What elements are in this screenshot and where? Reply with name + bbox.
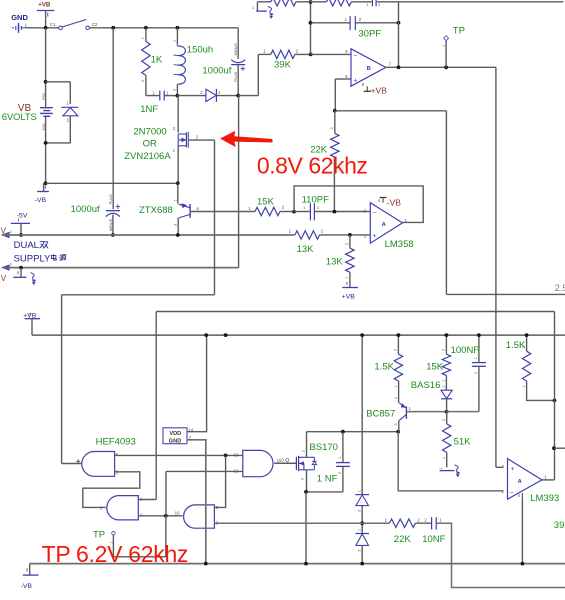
diode D4 clamp lower: [355, 529, 369, 552]
wire to -VB flag: [43, 183, 45, 191]
wire cap node down to rail2: [238, 96, 240, 268]
svg-text:1: 1: [338, 457, 342, 459]
wire clamp column mid: [361, 506, 363, 534]
wire comparator output: [542, 479, 555, 481]
svg-text:LM393: LM393: [530, 493, 559, 504]
svg-text:2: 2: [394, 397, 398, 399]
wire pin12 riser: [166, 471, 243, 515]
label DUAL SUPPLY: [14, 240, 67, 264]
node pin14 rail junction: [204, 333, 208, 337]
wire comparator output column: [496, 67, 503, 467]
node drain net junctions: [341, 430, 400, 434]
svg-text:2: 2: [141, 80, 145, 82]
wire top edge net: [257, 1, 563, 3]
wire gate3 pin9: [214, 455, 225, 507]
wire gnd to switch: [25, 27, 58, 29]
node source junction low: [304, 490, 308, 494]
annotation red arrow: [221, 131, 273, 146]
rail +VB lower: [32, 334, 565, 336]
svg-text:2: 2: [474, 372, 478, 374]
test point TP lower: [93, 516, 166, 557]
svg-text:1: 1: [474, 357, 478, 359]
svg-text:12: 12: [234, 469, 239, 474]
diode D3 clamp upper: [355, 490, 369, 512]
svg-text:C2: C2: [92, 22, 98, 27]
vdd gnd power box: [163, 427, 194, 444]
resistor R 13K horizontal: [289, 228, 371, 254]
svg-text:DUAL: DUAL: [14, 240, 39, 251]
node base net junction: [445, 410, 449, 414]
svg-text:1: 1: [442, 457, 446, 459]
node clamp rail junction: [360, 333, 364, 337]
svg-text:1000uf: 1000uf: [71, 204, 100, 215]
resistor R 51K: [442, 412, 471, 468]
node -VB junction: [44, 181, 48, 185]
svg-text:+: +: [511, 466, 515, 473]
svg-text:P02: P02: [42, 93, 46, 100]
wire top feedback column: [398, 2, 400, 68]
wire mosfet gate drive net: [62, 140, 215, 463]
svg-text:2: 2: [442, 419, 446, 421]
label HEF4093: [96, 436, 136, 447]
svg-text:HEF4093: HEF4093: [96, 436, 136, 447]
battery VB 6VOLTS: [2, 93, 53, 130]
svg-text:1: 1: [173, 40, 177, 42]
wire source column: [305, 492, 307, 564]
wire tank to diode: [177, 95, 206, 97]
node gate2 pin2 junction: [164, 514, 168, 518]
svg-text:1NF: 1NF: [140, 104, 158, 115]
terminal arrow left rail2: [1, 262, 13, 283]
power flag +VB under 13K: [342, 282, 358, 301]
svg-text:TP: TP: [453, 25, 465, 36]
svg-text:51K: 51K: [454, 437, 472, 448]
svg-text:OR: OR: [143, 139, 157, 150]
node diode-cap junction: [236, 94, 240, 98]
transistor Q1 2N7000: [124, 96, 199, 184]
nand gate U2:D HEF4093: [234, 450, 273, 476]
transistor Q4 BC857: [366, 381, 411, 432]
node output junctions: [397, 65, 448, 69]
terminal arrow left rail1: [1, 227, 13, 238]
svg-text:C1: C1: [50, 22, 56, 27]
node 13K junction: [348, 233, 352, 237]
wire opamp A feedback box: [294, 186, 423, 223]
svg-text:BAS16: BAS16: [411, 380, 441, 391]
op-amp U1:B LM358: [345, 49, 391, 86]
svg-text:2.5: 2.5: [555, 283, 565, 294]
svg-text:GND: GND: [169, 439, 181, 445]
svg-text:LM358: LM358: [385, 239, 414, 250]
svg-text:1.5K: 1.5K: [506, 340, 526, 351]
power pin +VB opamp B: [362, 82, 387, 96]
svg-text:13: 13: [234, 452, 239, 457]
svg-text:150uh: 150uh: [187, 45, 213, 56]
node top wire junctions: [44, 26, 180, 30]
node -5V rail junction: [19, 233, 23, 237]
svg-text:3: 3: [358, 550, 362, 552]
wire bs170 source: [306, 470, 343, 492]
wire bc857 base net: [406, 411, 446, 413]
node 100NF rail junction: [477, 333, 481, 337]
wire switch-right column: [112, 28, 114, 210]
resistor R 1.5K right: [506, 335, 555, 400]
node battery-diode top junction: [44, 80, 48, 84]
svg-text:1.5K: 1.5K: [374, 361, 394, 372]
svg-text:1: 1: [358, 529, 362, 531]
svg-text:−: −: [510, 490, 514, 497]
svg-text:−: −: [372, 209, 376, 216]
svg-text:PLUS: PLUS: [109, 194, 113, 204]
svg-text:SUPPLY: SUPPLY: [14, 254, 51, 265]
resistor top partial 2: [327, 0, 352, 6]
node clamp mid junction: [360, 521, 364, 525]
wire drain to comparator minus: [398, 432, 503, 491]
svg-text:100NF: 100NF: [451, 345, 480, 356]
wire clamp column upper: [361, 335, 363, 494]
label 2.5 partial: [555, 283, 565, 294]
capacitor top partial: [366, 0, 381, 7]
wire node to transistor column: [46, 182, 178, 184]
resistor top partial 1: [271, 0, 296, 6]
svg-text:PLUS: PLUS: [234, 71, 238, 81]
node 1.5K right junctions: [525, 333, 557, 402]
svg-text:110PF: 110PF: [302, 194, 329, 205]
svg-text:1K: 1K: [151, 55, 163, 66]
svg-text:10NF: 10NF: [422, 534, 445, 545]
test point TP top: [442, 25, 465, 67]
resistor R 1.5K left: [374, 335, 402, 387]
wire ztx base: [190, 211, 251, 213]
svg-text:2N7000: 2N7000: [133, 127, 166, 138]
wire gate1 pin5 to gate2 out: [83, 472, 140, 508]
wire comparator pullup column: [554, 312, 556, 480]
svg-text:22K: 22K: [394, 534, 412, 545]
rail feedback 311: [156, 311, 554, 313]
op-amp U3:A LM393: [502, 459, 560, 504]
wire lower feedback rail: [446, 293, 565, 295]
node pin13 junction: [224, 454, 228, 458]
rail -VB bottom: [30, 563, 565, 565]
svg-text:+VB: +VB: [342, 294, 356, 301]
capacitor 30PF: [311, 16, 399, 39]
wire Q net riser: [155, 312, 157, 500]
power flag -5V: [11, 212, 30, 235]
wire 30PF riser: [309, 0, 313, 54]
capacitor C 1000uf lower: [71, 194, 121, 231]
wire battery top parallel: [46, 82, 71, 104]
diode D1 across battery: [61, 101, 78, 123]
terminal flag 51K: [439, 465, 460, 477]
transistor Q3 BS170: [274, 442, 338, 480]
svg-text:15K: 15K: [426, 361, 444, 372]
capacitor 100NF: [447, 335, 486, 412]
svg-text:3: 3: [394, 423, 398, 425]
node 15K junction: [292, 210, 296, 214]
wire cap to rail: [112, 215, 114, 235]
power flag +VB lower-left: [23, 312, 40, 335]
power flag -VB bottom: [21, 564, 39, 590]
terminal flag top left: [252, 2, 273, 19]
svg-text:30PF: 30PF: [358, 28, 381, 39]
svg-text:TP 6.2V 62khz: TP 6.2V 62khz: [42, 541, 189, 567]
wire gate2 pin1 riser: [138, 499, 156, 501]
node gate1 output cross: [76, 459, 80, 463]
resistor R 15K: [248, 196, 294, 215]
node bottom rail junctions: [204, 562, 524, 566]
node tank junction: [176, 94, 180, 98]
node source junction: [176, 181, 180, 185]
annotation 0.8V 62khz: [257, 152, 368, 178]
capacitor 10NF: [422, 517, 445, 545]
svg-text:-VB: -VB: [35, 197, 47, 204]
svg-text:1000uf: 1000uf: [202, 65, 231, 76]
wire 39K to opamp: [311, 53, 351, 55]
svg-text:1: 1: [141, 37, 145, 39]
svg-text:2: 2: [173, 89, 177, 91]
svg-text:V: V: [1, 274, 7, 283]
resistor R 22K vertical: [310, 111, 339, 212]
power pin LM393: [518, 493, 523, 564]
wire gate3 pin8 net: [214, 522, 389, 524]
svg-text:0.8V 62khz: 0.8V 62khz: [257, 152, 368, 178]
node 30PF corner: [397, 21, 401, 25]
label 39 partial: [554, 520, 565, 531]
node output pullup junction: [552, 446, 556, 450]
transistor Q2 ZTX688: [139, 183, 199, 235]
diode D5 BAS16: [411, 380, 452, 412]
svg-text:B: B: [196, 206, 199, 211]
wire output stub right: [554, 447, 565, 449]
wire switch to corner: [90, 27, 239, 29]
wire feedback to comparator net: [335, 111, 447, 295]
op-amp U1:A LM358: [364, 203, 414, 250]
node rail2 flag junction: [19, 266, 23, 270]
svg-text:-VB: -VB: [387, 197, 402, 207]
svg-text:1: 1: [442, 380, 446, 382]
svg-text:3: 3: [173, 224, 177, 226]
node pin7 rail junctions: [224, 333, 228, 337]
svg-text:+: +: [353, 77, 357, 84]
svg-text:3: 3: [358, 510, 362, 512]
power flag -VB: [35, 186, 49, 205]
svg-text:ZVN2106A: ZVN2106A: [124, 151, 171, 162]
power flag +VB top: [37, 2, 54, 28]
nand gate U2:A HEF4093: [100, 496, 143, 520]
wire clamp column lower: [361, 546, 363, 564]
wire cap node to 39K riser: [238, 54, 258, 95]
resistor R 15K mid: [426, 335, 450, 390]
wire opamp B output: [386, 66, 496, 68]
svg-text:13K: 13K: [326, 257, 344, 268]
svg-text:2: 2: [338, 472, 342, 474]
node 22K bottom junction: [333, 210, 337, 214]
svg-text:GND: GND: [11, 13, 28, 22]
rail dual supply upper: [2, 234, 291, 236]
svg-text:−: −: [353, 52, 357, 59]
svg-text:1: 1: [439, 467, 443, 469]
wire gate4 output Q: [274, 458, 296, 464]
svg-text:13K: 13K: [297, 244, 315, 255]
svg-text:1: 1: [394, 385, 398, 387]
svg-text:1: 1: [173, 199, 177, 201]
svg-text:-VB: -VB: [21, 583, 33, 590]
svg-text:+VB: +VB: [38, 2, 51, 9]
wire +VB column to battery: [45, 28, 47, 108]
capacitor 1 NF low: [317, 432, 350, 492]
svg-text:MINUS: MINUS: [234, 43, 238, 56]
wire opamp B plus input: [335, 79, 351, 111]
node 1.5K rail junction: [397, 333, 401, 337]
wire vdd pin14 to +VB rail: [187, 335, 207, 432]
resistor R 22K low: [385, 517, 432, 545]
wire battery bottom: [44, 116, 71, 184]
resistor R 1K: [141, 28, 163, 96]
svg-text:TP: TP: [93, 530, 105, 541]
wire gate2 pin2 net: [138, 515, 182, 517]
node cap-rail junction: [111, 233, 115, 237]
svg-text:ZTX688: ZTX688: [139, 205, 173, 216]
resistor R 13K vertical: [326, 235, 354, 287]
svg-text:1: 1: [442, 386, 446, 388]
switch SW1: [50, 20, 98, 30]
svg-text:2: 2: [330, 127, 334, 129]
svg-text:1: 1: [345, 277, 349, 279]
capacitor 110PF: [294, 194, 370, 220]
wire 10NF to bottom right: [437, 523, 565, 587]
svg-text:B: B: [367, 66, 371, 72]
wire drain net: [307, 431, 399, 433]
svg-text:BS170: BS170: [309, 442, 338, 453]
svg-text:+: +: [372, 233, 376, 240]
svg-text:1: 1: [442, 45, 446, 47]
svg-text:1: 1: [522, 385, 526, 387]
svg-text:+VB: +VB: [371, 86, 388, 96]
svg-text:2: 2: [442, 349, 446, 351]
nand gate U2:C HEF4093: [175, 505, 219, 528]
svg-text:BC857: BC857: [366, 408, 395, 419]
capacitor C 1000uf upper: [202, 28, 245, 96]
svg-text:39: 39: [554, 520, 565, 531]
wire bs170 drain: [306, 432, 308, 458]
svg-text:-5V: -5V: [17, 212, 28, 219]
svg-text:15K: 15K: [257, 196, 275, 207]
ground battery symbol GND: [11, 13, 28, 33]
svg-text:2: 2: [394, 349, 398, 351]
node 22K top junction: [333, 109, 337, 113]
svg-text:2: 2: [345, 243, 349, 245]
svg-text:3: 3: [301, 478, 305, 480]
inductor L 150uh: [173, 28, 214, 96]
capacitor 1NF horizontal: [140, 90, 177, 115]
svg-text:6VOLTS: 6VOLTS: [2, 112, 37, 122]
svg-text:1 NF: 1 NF: [317, 474, 338, 485]
resistor R 39K: [258, 49, 310, 71]
node 15K mid rail junction: [445, 333, 449, 337]
nand gate U2:B HEF4093: [82, 452, 119, 477]
svg-text:1: 1: [358, 490, 362, 492]
wire gnd pin7 to -VB rail: [187, 440, 206, 564]
svg-text:10: 10: [175, 511, 180, 516]
power pin -VB opamp A: [378, 197, 402, 207]
wire gate1 pin6 net: [115, 454, 243, 456]
diode D2 oscillator: [200, 89, 221, 102]
svg-text:39K: 39K: [274, 60, 292, 71]
rail dual supply lower: [2, 267, 239, 269]
annotation TP 6.2V 62khz: [42, 541, 189, 567]
svg-text:2: 2: [302, 450, 306, 452]
power flag V lower-left: [13, 268, 35, 285]
node ztx collector rail junction: [176, 233, 180, 237]
svg-text:VDD: VDD: [169, 431, 181, 437]
wire diode to cap node: [216, 95, 238, 97]
node 39K junction: [309, 53, 313, 57]
